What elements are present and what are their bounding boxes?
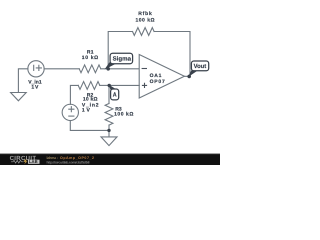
- svg-text:A: A: [113, 92, 117, 99]
- svg-text:1 V: 1 V: [82, 107, 91, 113]
- svg-text:100 kΩ: 100 kΩ: [114, 111, 133, 117]
- svg-text:Vout: Vout: [194, 63, 207, 70]
- svg-text:1 V: 1 V: [31, 85, 39, 91]
- svg-text:OP07: OP07: [150, 79, 165, 85]
- svg-text:10 kΩ: 10 kΩ: [82, 55, 98, 61]
- svg-text:http://circuitlab.com/c6zf5db8: http://circuitlab.com/c6zf5db8: [47, 160, 90, 164]
- svg-text:100 kΩ: 100 kΩ: [136, 18, 155, 24]
- svg-text:LAB: LAB: [29, 159, 38, 164]
- svg-text:Sigma: Sigma: [113, 56, 132, 63]
- svg-text:Rfbk: Rfbk: [138, 11, 152, 17]
